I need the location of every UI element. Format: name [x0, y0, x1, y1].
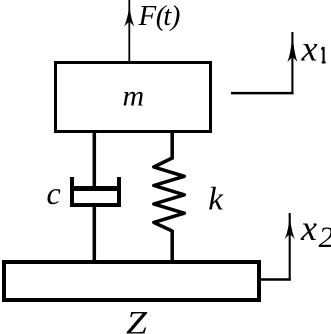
svg-text:x: x — [300, 208, 317, 248]
svg-text:F(t): F(t) — [138, 0, 181, 32]
svg-text:Z: Z — [126, 305, 148, 334]
svg-text:k: k — [208, 182, 224, 218]
svg-text:2: 2 — [319, 221, 331, 254]
svg-text:x: x — [301, 28, 318, 68]
svg-text:m: m — [123, 80, 145, 113]
svg-text:c: c — [47, 175, 61, 211]
